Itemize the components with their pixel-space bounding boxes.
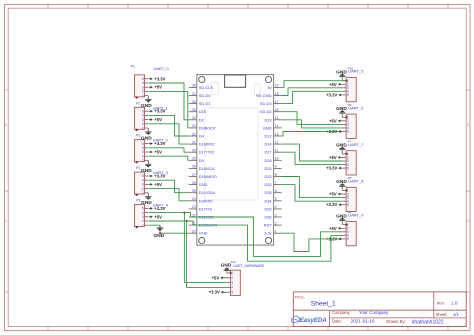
svg-text:4: 4 <box>142 178 144 182</box>
svg-text:12: 12 <box>275 140 279 144</box>
svg-text:5v: 5v <box>267 85 271 90</box>
svg-text:37: 37 <box>192 92 196 96</box>
power flag +5V on P2 pin 3 <box>148 117 162 122</box>
U1 pin 28 D18/SCK <box>189 165 216 171</box>
ground symbol at P7 pin 1 <box>336 143 347 155</box>
svg-text:GND: GND <box>336 179 347 185</box>
power flag +5V on P1 pin 3 <box>148 85 162 90</box>
svg-text:14: 14 <box>275 124 279 128</box>
U1 pin 24 D3/RX0 <box>189 197 213 203</box>
junction at P10 pin 1 <box>345 80 347 82</box>
svg-text:Drawn By:: Drawn By: <box>386 319 405 324</box>
svg-text:SD-CLK: SD-CLK <box>199 85 214 90</box>
EasyEDA logo <box>291 316 327 324</box>
svg-text:SD-D0: SD-D0 <box>199 93 212 98</box>
junction at ground node <box>159 232 161 234</box>
U1 pin 25 D21/SDA <box>189 189 216 195</box>
svg-text:23: 23 <box>192 205 196 209</box>
svg-text:SD-D1: SD-D1 <box>199 101 211 106</box>
wire U1.19 5v to P10.1 <box>282 81 347 88</box>
connector P4 UART_3 (5-pin header) <box>134 166 168 196</box>
U1 pin 10 D26 <box>264 157 281 163</box>
U1 pin 16 SD-D2 <box>260 108 282 114</box>
svg-text:GND: GND <box>199 231 208 236</box>
U1 pin 38 SD-CLK <box>189 84 214 90</box>
connector P3 UART_2 (5-pin header) <box>134 134 168 164</box>
svg-text:Company:: Company: <box>332 310 351 315</box>
svg-text:SD-D3: SD-D3 <box>260 101 272 106</box>
svg-text:1: 1 <box>142 191 144 195</box>
U1 pin 5 D34 <box>264 197 281 203</box>
svg-text:RST: RST <box>264 223 272 228</box>
wire P1.4 to U1.34 D2 <box>148 83 188 120</box>
svg-text:28: 28 <box>192 165 196 169</box>
svg-text:D14: D14 <box>264 142 272 147</box>
svg-text:2: 2 <box>142 154 144 158</box>
svg-text:+5V: +5V <box>154 182 162 187</box>
svg-text:3.3v: 3.3v <box>264 231 271 236</box>
ground symbol at P6 pin 1 <box>336 213 347 225</box>
svg-text:4: 4 <box>231 286 233 290</box>
U1 pin 4 D39 <box>264 205 281 211</box>
USB connector on module <box>225 75 246 87</box>
svg-text:D35: D35 <box>264 190 271 195</box>
svg-text:D32: D32 <box>264 182 271 187</box>
U1 pin 36 SD-D1 <box>189 100 211 106</box>
svg-text:36: 36 <box>192 100 196 104</box>
svg-text:D2: D2 <box>199 117 204 122</box>
wire U1.16 to P9.3 <box>282 112 343 125</box>
U1 pin 6 D35 <box>264 189 281 195</box>
junction on P5.2 net <box>186 220 188 222</box>
svg-text:D16/RX2: D16/RX2 <box>199 142 215 147</box>
wire P5.2 / U1.21 D23 across to P6.4 <box>148 221 342 261</box>
svg-text:P5: P5 <box>136 199 140 203</box>
svg-text:D34: D34 <box>264 198 272 203</box>
U1 pin 34 D2 <box>189 116 204 122</box>
svg-text:+3.3V: +3.3V <box>154 141 165 146</box>
svg-text:D1/TX0: D1/TX0 <box>199 206 213 211</box>
power flag +5V on P7 pin 2 <box>329 155 342 160</box>
power flag +3.3V on P10 pin 5 <box>326 92 342 97</box>
module mounting holes <box>199 76 272 243</box>
svg-text:GND: GND <box>336 143 347 149</box>
wire U1.20 GND to ground node <box>160 232 189 234</box>
U1 pin 23 D1/TX0 <box>189 205 213 211</box>
wire P2.2 to U1.31 D16/RX2 <box>148 124 188 144</box>
svg-text:UART_5: UART_5 <box>348 69 364 74</box>
U1 pin 15 D13 <box>264 116 281 122</box>
U1 pin 3 D36 <box>264 213 281 219</box>
svg-text:1: 1 <box>142 126 144 130</box>
wire branch to P11.3 <box>184 213 227 283</box>
svg-text:GND: GND <box>154 233 165 239</box>
ESP32 module U1 body <box>197 75 274 246</box>
U1 pin 32 D4 <box>189 132 205 138</box>
svg-text:GND: GND <box>263 125 272 130</box>
svg-text:+5V: +5V <box>329 155 337 160</box>
svg-text:+5V: +5V <box>154 85 162 90</box>
svg-text:1/1: 1/1 <box>453 312 460 317</box>
power flag +5V on P10 pin 2 <box>329 82 342 87</box>
svg-text:+5V: +5V <box>329 226 337 231</box>
connector P6 UART_9 (5-pin header) <box>342 210 364 246</box>
wire P3.2 to U1.29 D5 <box>148 156 188 160</box>
svg-text:UART_9: UART_9 <box>348 213 364 218</box>
power flag +5V on P5 pin 3 <box>148 214 162 219</box>
power flag +3.3V on P6 pin 5 <box>326 236 342 241</box>
ground symbol below P2 <box>141 128 152 141</box>
svg-text:4: 4 <box>142 114 144 118</box>
U1 pin 12 D14 <box>264 140 281 146</box>
junction dot at P3 corner <box>136 161 138 163</box>
svg-text:UART_8: UART_8 <box>348 179 364 184</box>
U1 pin 7 D32 <box>264 181 281 187</box>
junction dot at P2 corner <box>136 129 138 131</box>
svg-text:2: 2 <box>142 187 144 191</box>
wire P2.4 to U1.32 D4 <box>148 115 188 136</box>
svg-text:+5V: +5V <box>329 192 337 197</box>
svg-text:11: 11 <box>275 149 279 153</box>
power flag +3.3V on P8 pin 5 <box>326 202 342 207</box>
svg-text:GND: GND <box>336 106 347 112</box>
svg-text:SD-CMD: SD-CMD <box>256 93 272 98</box>
svg-text:33: 33 <box>192 124 196 128</box>
svg-text:D3/RX0: D3/RX0 <box>199 198 213 203</box>
svg-text:SD-D2: SD-D2 <box>260 109 272 114</box>
svg-text:GND: GND <box>141 135 152 141</box>
svg-text:D36: D36 <box>264 215 271 220</box>
U1 pin 37 SD-D0 <box>189 92 212 98</box>
svg-text:UART_0: UART_0 <box>154 66 170 71</box>
svg-text:3: 3 <box>142 150 144 154</box>
wire U1.12 to P7.3 <box>282 144 343 161</box>
svg-text:13: 13 <box>275 132 279 136</box>
junction at P9 pin 5 flag <box>339 131 341 133</box>
svg-text:UART_7: UART_7 <box>348 142 364 147</box>
svg-text:8: 8 <box>275 173 277 177</box>
wire U1.8 to P8.3 <box>282 177 343 198</box>
svg-text:4: 4 <box>142 81 144 85</box>
svg-text:1: 1 <box>275 230 277 234</box>
junction at P8 pin 1 <box>345 190 347 192</box>
svg-text:TITLE:: TITLE: <box>294 295 304 299</box>
svg-text:29: 29 <box>192 157 196 161</box>
svg-text:4: 4 <box>142 146 144 150</box>
connector P7 UART_7 (5-pin header) <box>342 140 364 176</box>
svg-text:Sheet:: Sheet: <box>436 312 448 317</box>
svg-text:GND: GND <box>199 182 208 187</box>
svg-text:D21/SDA: D21/SDA <box>199 190 216 195</box>
svg-text:15: 15 <box>275 116 279 120</box>
wire U1.13 to P9.5 +3.3V <box>282 132 340 137</box>
power flag +5V on P3 pin 3 <box>148 150 162 155</box>
svg-text:UART_6: UART_6 <box>348 105 364 110</box>
ground symbol below P5 <box>148 225 164 239</box>
svg-text:38: 38 <box>192 84 196 88</box>
svg-text:5: 5 <box>142 77 144 81</box>
svg-text:P1: P1 <box>131 64 135 68</box>
power flag +5V on P8 pin 2 <box>329 192 342 197</box>
svg-text:3: 3 <box>142 183 144 187</box>
svg-text:+3.3V: +3.3V <box>326 202 337 207</box>
svg-text:D27: D27 <box>264 150 271 155</box>
svg-text:3: 3 <box>142 215 144 219</box>
svg-text:32: 32 <box>192 132 196 136</box>
U1 pin 20 GND <box>189 230 208 236</box>
svg-text:2021-01-16: 2021-01-16 <box>351 319 375 324</box>
connector P9 UART_6 (5-pin header) <box>342 103 364 138</box>
svg-text:GND: GND <box>336 69 347 75</box>
svg-text:D5: D5 <box>199 158 204 163</box>
svg-text:2: 2 <box>275 221 277 225</box>
title block <box>293 292 466 327</box>
svg-text:35: 35 <box>192 108 196 112</box>
junction at P7 pin 1 <box>345 153 347 155</box>
wire U1.18 to P10.3 <box>282 88 343 96</box>
wire U1.11 to P7.4 <box>282 152 343 164</box>
U1 pin 17 SD-D3 <box>260 100 282 106</box>
svg-text:+3.3V: +3.3V <box>154 109 165 114</box>
junction at P9 pin 1 <box>345 116 347 118</box>
svg-text:GND: GND <box>221 262 232 268</box>
svg-text:B: B <box>467 123 469 127</box>
svg-text:D0/BOOT: D0/BOOT <box>199 125 217 130</box>
ground symbol at P8 pin 1 <box>336 179 347 191</box>
wire U1.15 to P9.4 <box>282 120 343 128</box>
svg-text:+3.3V: +3.3V <box>209 290 220 295</box>
power flag +5V on P11 pin 2 <box>212 275 227 280</box>
svg-text:GND: GND <box>141 168 152 174</box>
svg-text:+5V: +5V <box>154 214 162 219</box>
svg-text:+3.3V: +3.3V <box>154 206 165 211</box>
junction dot at P5 corner <box>136 226 138 228</box>
svg-text:REV:: REV: <box>437 301 445 305</box>
svg-text:P4: P4 <box>136 166 140 170</box>
svg-text:D39: D39 <box>264 206 271 211</box>
svg-text:3: 3 <box>142 118 144 122</box>
junction on P5.4 net <box>183 212 185 214</box>
svg-text:D13: D13 <box>264 117 271 122</box>
wire branch to P11.4 <box>187 221 227 287</box>
svg-text:3: 3 <box>142 85 144 89</box>
svg-text:+3.3V: +3.3V <box>326 166 337 171</box>
svg-text:5: 5 <box>347 93 349 97</box>
wire P4.2 to U1.24 D3/RX0 <box>148 189 188 201</box>
connector P8 UART_8 (5-pin header) <box>342 176 364 212</box>
U1 pin 2 RST <box>264 221 282 227</box>
svg-text:2: 2 <box>142 90 144 94</box>
power flag +3.3V on P3 pin 5 <box>148 141 165 146</box>
ground symbol at P10 pin 1 <box>336 69 347 81</box>
wire P3.4 to U1.30 D17/TX2 <box>148 148 188 152</box>
svg-text:4: 4 <box>142 211 144 215</box>
svg-text:Your Company: Your Company <box>359 310 389 315</box>
connector P11 UART_HARDWARE (5-pin header) <box>227 260 265 296</box>
power flag +3.3V on P7 pin 5 <box>326 166 342 171</box>
U1 pin 29 D5 <box>189 157 204 163</box>
connector P2 UART_1 (5-pin header) <box>134 101 168 131</box>
svg-text:+5V: +5V <box>154 150 162 155</box>
power flag +3.3V on P1 pin 5 <box>148 76 165 81</box>
svg-text:GND: GND <box>141 103 152 109</box>
svg-text:+5V: +5V <box>329 82 337 87</box>
svg-text:25: 25 <box>192 189 196 193</box>
wire P1.2 to U1.33 D0 <box>148 91 188 128</box>
wire P5.4 / U1.22 D22 across to P6.3 <box>148 213 342 257</box>
U1 pin 22 D22/SCL <box>189 213 216 219</box>
wire U1.1 3.3v loop to P6.5 <box>282 233 340 251</box>
ground symbol at P9 pin 1 <box>336 106 347 118</box>
power flag +3.3V on P11 pin 5 <box>209 290 227 295</box>
svg-text:5: 5 <box>142 174 144 178</box>
svg-text:5: 5 <box>142 207 144 211</box>
svg-text:19: 19 <box>275 84 279 88</box>
U1 pin 11 D27 <box>264 149 281 155</box>
svg-text:+5V: +5V <box>154 117 162 122</box>
svg-text:5: 5 <box>142 142 144 146</box>
U1 pin 19 5v <box>267 84 281 90</box>
svg-text:UART_HARDWARE: UART_HARDWARE <box>233 264 264 268</box>
svg-text:18: 18 <box>275 92 279 96</box>
svg-text:10: 10 <box>275 157 279 161</box>
svg-text:9: 9 <box>275 165 277 169</box>
svg-text:3: 3 <box>275 213 277 217</box>
svg-text:GND: GND <box>141 200 152 206</box>
connector P5 UART_4 (5-pin header) <box>134 199 168 229</box>
svg-text:20: 20 <box>192 230 196 234</box>
connector P1 UART_0 (5-pin header) <box>131 64 170 98</box>
svg-text:34: 34 <box>192 116 196 120</box>
svg-text:5: 5 <box>275 197 277 201</box>
junction dot at P4 corner <box>136 194 138 196</box>
svg-text:16: 16 <box>275 108 279 112</box>
svg-text:D17/TX2: D17/TX2 <box>199 150 214 155</box>
svg-text:1: 1 <box>142 94 144 98</box>
power flag +3.3V on P2 pin 5 <box>148 109 165 114</box>
power flag +3.3V on P4 pin 5 <box>148 174 165 179</box>
svg-text:5: 5 <box>347 166 349 170</box>
U1 pin 26 GND <box>189 181 208 187</box>
junction dot at P1 corner <box>136 96 138 98</box>
U1 pin 13 D12 <box>264 132 281 138</box>
U1 pin 35 D15 <box>189 108 206 114</box>
svg-text:27: 27 <box>192 173 196 177</box>
svg-text:26: 26 <box>192 181 196 185</box>
svg-text:nhathanh1022: nhathanh1022 <box>412 320 444 326</box>
U1 pin 1 3.3v <box>264 230 281 236</box>
power flag +3.3V on P9 pin 5 <box>326 129 342 134</box>
junction at P6 pin 5 flag <box>339 238 341 240</box>
U1 pin 30 D17/TX2 <box>189 149 214 155</box>
svg-text:7: 7 <box>275 181 277 185</box>
U1 pin 18 SD-CMD <box>256 92 282 98</box>
svg-text:5: 5 <box>347 203 349 207</box>
svg-text:1.0: 1.0 <box>451 301 458 306</box>
U1 pin 8 D33 <box>264 173 281 179</box>
svg-text:5: 5 <box>347 237 349 241</box>
svg-text:+5V: +5V <box>329 118 337 123</box>
svg-text:31: 31 <box>192 140 196 144</box>
power flag +5V on P9 pin 2 <box>329 118 342 123</box>
svg-text:+3.3V: +3.3V <box>154 76 165 81</box>
junction at P6 pin 1 <box>345 224 347 226</box>
U1 pin 14 GND <box>263 124 282 130</box>
U1 pin 31 D16/RX2 <box>189 140 215 146</box>
ground symbol below P1 <box>141 96 152 109</box>
svg-text:GND: GND <box>336 213 347 219</box>
svg-text:6: 6 <box>275 189 277 193</box>
ground symbol below P3 <box>141 160 152 173</box>
power flag +5V on P4 pin 3 <box>148 182 162 187</box>
svg-text:P3: P3 <box>136 134 140 138</box>
ground symbol below P4 <box>141 193 152 206</box>
svg-text:5: 5 <box>231 290 233 294</box>
svg-text:2: 2 <box>142 122 144 126</box>
U1 pin 27 D19/MISO <box>189 173 217 179</box>
svg-text:30: 30 <box>192 149 196 153</box>
svg-text:D18/SCK: D18/SCK <box>199 166 216 171</box>
svg-text:4: 4 <box>275 205 277 209</box>
svg-text:D25: D25 <box>264 166 271 171</box>
ground symbol at P11 pin 1 <box>221 262 232 274</box>
svg-text:D19/MISO: D19/MISO <box>199 174 217 179</box>
svg-text:D26: D26 <box>264 158 271 163</box>
wire U1.7 to P8.4 <box>282 185 343 202</box>
svg-text:Date:: Date: <box>332 319 342 324</box>
junction at P11 pin 1 <box>230 272 232 274</box>
svg-text:Sheet_1: Sheet_1 <box>311 300 336 307</box>
wire P4.4 to U1.25 D21/SDA <box>148 180 188 193</box>
svg-text:D33: D33 <box>264 174 271 179</box>
svg-text:1: 1 <box>142 223 144 227</box>
svg-text:D4: D4 <box>199 134 205 139</box>
wire U1.17 to P10.4 <box>282 91 343 103</box>
svg-text:+5V: +5V <box>212 275 220 280</box>
svg-text:5: 5 <box>347 130 349 134</box>
svg-text:+3.3V: +3.3V <box>154 174 165 179</box>
svg-text:24: 24 <box>192 197 196 201</box>
svg-text:17: 17 <box>275 100 279 104</box>
U1 pin 9 D25 <box>264 165 281 171</box>
svg-text:P2: P2 <box>136 101 140 105</box>
U1 pin 21 D23/MOSI <box>189 221 217 227</box>
svg-text:D15: D15 <box>199 109 206 114</box>
svg-text:+3.3V: +3.3V <box>326 92 337 97</box>
connector P10 UART_5 (5-pin header) <box>342 66 364 102</box>
svg-text:B: B <box>5 123 7 127</box>
svg-text:2: 2 <box>142 219 144 223</box>
power flag +5V on P6 pin 2 <box>329 226 342 231</box>
svg-text:1: 1 <box>142 159 144 163</box>
svg-text:3: 3 <box>231 281 233 285</box>
svg-text:D12: D12 <box>264 134 271 139</box>
svg-text:2: 2 <box>231 276 233 280</box>
power flag +3.3V on P5 pin 5 <box>148 206 165 211</box>
svg-text:5: 5 <box>142 109 144 113</box>
svg-text:EasyEDA: EasyEDA <box>300 317 328 324</box>
U1 pin 33 D0/BOOT <box>189 124 217 130</box>
